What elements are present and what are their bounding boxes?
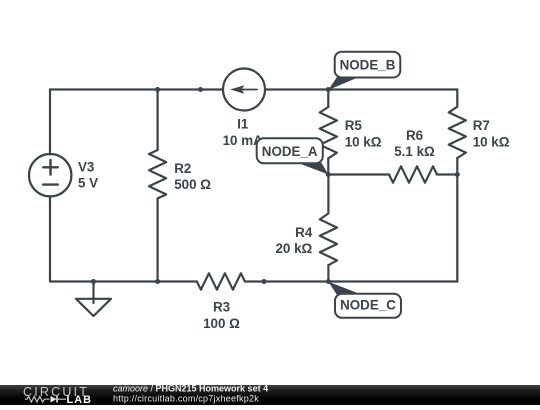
label V3 value [78,117,510,331]
voltage source V3 circle [29,154,71,196]
resistor R2 body [149,150,166,198]
ground stub [92,282,94,304]
svg-text:NODE_C: NODE_C [340,298,396,313]
wire R5 top stub [327,90,329,108]
svg-text:5.1 kΩ: 5.1 kΩ [394,144,435,159]
I1 arrow head [230,85,244,94]
junction dot top mid [198,87,203,92]
wire bottom left [50,280,197,282]
node C flag tail [328,282,361,295]
circuitlab logo diode [51,396,57,403]
svg-text:R5: R5 [345,118,363,133]
V3 minus sign [43,183,58,185]
svg-text:R6: R6 [406,128,423,143]
svg-text:I1: I1 [237,117,249,132]
svg-text:NODE_A: NODE_A [262,144,318,159]
svg-text:20 kΩ: 20 kΩ [275,241,312,256]
junction dot node B [326,87,331,92]
current source I1 arrow shaft [241,89,257,91]
wire R6 right stub [438,173,458,175]
svg-text:camoore / PHGN215 Homework set: camoore / PHGN215 Homework set 4 [113,385,268,394]
junction dot bottom mid [262,279,267,284]
wire node A horizontal [328,173,389,175]
svg-text:V3: V3 [78,159,94,174]
wire top right horizontal [265,88,457,90]
resistor R5 body [320,107,337,158]
wire bottom right [245,280,457,282]
current source I1 circle [223,69,265,111]
junction dot node C [326,279,331,284]
svg-text:10 kΩ: 10 kΩ [345,134,382,149]
svg-text:R7: R7 [473,118,490,133]
wire R4 top stub [327,175,329,214]
resistor R7 body [449,107,466,158]
V3 plus sign [43,160,58,185]
ground triangle [76,299,111,316]
svg-text:R4: R4 [295,225,313,240]
resistor R3 body [197,273,245,289]
resistor R4 body [320,213,337,265]
node C flag box [335,294,401,318]
resistor R6 body [389,166,437,182]
svg-text:500 Ω: 500 Ω [174,177,211,192]
svg-text:R2: R2 [174,161,191,176]
footer bar [0,385,540,405]
junction dot ground [91,279,96,284]
junction dot R2 bottom [155,279,160,284]
junction dot node A [326,172,331,177]
wire left vertical bottom [49,196,51,281]
svg-text:100 Ω: 100 Ω [203,316,240,331]
wire top left horizontal [50,88,223,90]
junction dot top R2 [155,87,160,92]
junction dot R6 R7 [455,172,460,177]
svg-text:LAB: LAB [67,394,93,405]
wire left vertical top [49,90,51,155]
node B flag tail [328,77,359,90]
wire R2 top stub [157,90,159,151]
node B flag box [335,52,401,78]
wire right vertical top [456,90,458,107]
wire right vertical bottom [456,158,458,282]
svg-text:NODE_B: NODE_B [340,57,396,72]
wire R2 bottom stub [157,198,159,281]
svg-text:10 kΩ: 10 kΩ [473,134,510,149]
svg-text:5 V: 5 V [78,175,98,190]
node A flag tail [298,163,329,175]
node A flag box [257,138,323,163]
circuitlab logo resistor zigzag [25,396,50,402]
wire R5 bottom stub [327,158,329,174]
wire R4 bottom stub [327,265,329,281]
svg-text:R3: R3 [213,300,230,315]
svg-text:http://circuitlab.com/cp7jxhee: http://circuitlab.com/cp7jxheefkp2k [113,393,259,403]
